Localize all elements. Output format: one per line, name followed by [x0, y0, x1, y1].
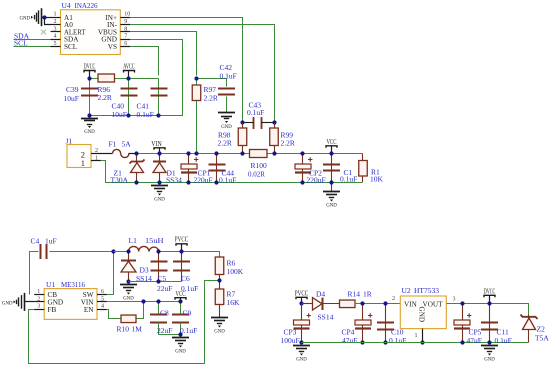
svg-text:4: 4 [101, 304, 104, 310]
capacitor C1 [331, 154, 333, 192]
capacitor C11 [489, 304, 491, 343]
junction C10 bottom [383, 340, 387, 344]
junction C9 ground [178, 332, 182, 336]
svg-text:2.2R: 2.2R [281, 139, 295, 148]
wire R14 to U2 VIN [355, 303, 401, 305]
svg-text:AVCC: AVCC [123, 63, 135, 71]
svg-text:VCC: VCC [327, 138, 337, 146]
svg-text:GND: GND [154, 197, 165, 203]
junction DVCC node [87, 76, 91, 80]
svg-text:2: 2 [392, 296, 395, 302]
capacitor C6 [181, 252, 183, 282]
op-amp U4 INA226 current monitor [61, 10, 121, 55]
svg-text:0.1uF: 0.1uF [340, 175, 357, 184]
pin 5 SCL [51, 46, 61, 48]
wire SDA [14, 39, 51, 41]
pin 1 [91, 160, 101, 162]
junction CP4 bottom [360, 340, 364, 344]
svg-text:SS34: SS34 [166, 176, 182, 185]
wire PVCC rail to R6 [159, 252, 220, 257]
resistor R100 shunt [250, 150, 268, 158]
pin 3 ALERT [51, 31, 61, 33]
svg-text:J1: J1 [66, 137, 73, 146]
svg-text:0.1uF: 0.1uF [247, 108, 264, 117]
junction R99 bottom [272, 151, 276, 155]
wire GND pin7 to ground rail [93, 40, 183, 116]
svg-text:2: 2 [37, 296, 40, 302]
svg-text:9: 9 [124, 19, 127, 25]
pin 8 VBUS [120, 31, 130, 33]
capacitor C39 [81, 88, 98, 90]
junction FB divider [217, 278, 221, 282]
svg-text:GND: GND [326, 203, 337, 209]
svg-text:220uF: 220uF [194, 176, 213, 185]
svg-text:GND: GND [296, 357, 307, 363]
ground below C11 [481, 345, 498, 347]
no-connect X on pin 3 [41, 30, 46, 35]
svg-text:220uF: 220uF [307, 176, 326, 185]
svg-text:SS14: SS14 [318, 313, 334, 322]
wire VBUS pin8 down [131, 32, 197, 76]
junction ground rail [126, 113, 130, 117]
capacitor CP2 polarized [302, 154, 304, 183]
svg-text:EN: EN [84, 306, 94, 314]
inductor L1 [129, 246, 160, 251]
wire to L1 [114, 251, 129, 253]
svg-text:10uF: 10uF [112, 110, 127, 119]
junction C5 bottom [156, 279, 160, 283]
svg-text:U2: U2 [402, 286, 411, 295]
svg-text:C9: C9 [183, 309, 192, 318]
junction CP1 top [186, 151, 190, 155]
capacitor C5 [158, 252, 160, 282]
svg-text:T5A: T5A [535, 334, 549, 343]
pin 1 CB [34, 294, 44, 296]
svg-text:3: 3 [37, 304, 40, 310]
svg-text:DVCC: DVCC [84, 63, 96, 71]
wire IN- pin9 to R99 [131, 25, 275, 121]
svg-text:L1: L1 [129, 236, 138, 245]
junction D3 bottom ground [126, 279, 130, 283]
svg-text:T30A: T30A [111, 176, 129, 185]
svg-text:1: 1 [37, 289, 40, 295]
svg-text:U1: U1 [46, 280, 55, 289]
svg-text:SCL: SCL [64, 43, 77, 51]
svg-text:3: 3 [453, 297, 456, 303]
pin 1 A1 [51, 17, 61, 19]
pin 9 IN- [120, 24, 130, 26]
pin 6 VS [120, 46, 130, 48]
svg-text:7: 7 [124, 34, 127, 40]
svg-text:GND: GND [175, 349, 186, 355]
svg-text:R10: R10 [117, 325, 130, 334]
svg-text:DVCC: DVCC [484, 287, 496, 295]
svg-text:Z2: Z2 [537, 325, 546, 334]
junction C1 top [329, 151, 333, 155]
capacitor CP3 polarized [301, 304, 303, 343]
svg-text:47uF: 47uF [467, 336, 482, 345]
resistor R96 [98, 74, 115, 82]
pin 3 FB [34, 309, 44, 311]
svg-text:VIN: VIN [404, 301, 418, 309]
connector J1 [67, 145, 91, 168]
junction C8 top [156, 299, 160, 303]
svg-text:1M: 1M [132, 325, 143, 334]
wire C40 column [128, 79, 130, 116]
svg-text:1R: 1R [363, 290, 372, 299]
svg-text:R14: R14 [348, 290, 361, 299]
wire C9 bottom [180, 323, 182, 338]
svg-text:0.1uF: 0.1uF [219, 176, 236, 185]
diode D3 freewheel [128, 252, 130, 282]
wire C42 to ground [226, 97, 228, 113]
junction C10 top [383, 301, 387, 305]
pin 4 EN [97, 309, 107, 311]
capacitor C43 [253, 117, 255, 129]
pin 2 [91, 153, 101, 155]
wire output ground line [302, 342, 529, 344]
svg-text:GND: GND [214, 329, 225, 335]
junction R98 bottom [240, 151, 244, 155]
svg-text:2: 2 [54, 19, 57, 25]
junction C43 right [272, 120, 276, 124]
wire AVCC rail [90, 78, 159, 80]
svg-text:HT7533: HT7533 [414, 286, 439, 295]
svg-text:8: 8 [124, 26, 127, 32]
capacitor C41 [151, 88, 168, 90]
svg-text:ME3116: ME3116 [61, 280, 85, 289]
capacitor CP5 polarized [462, 304, 464, 343]
junction CP2 bottom [300, 180, 304, 184]
pin 6 SW [97, 294, 107, 296]
capacitor CP4 polarized [362, 304, 364, 343]
svg-text:PVCC: PVCC [295, 289, 309, 297]
diode D4 [302, 303, 313, 305]
svg-text:3: 3 [54, 26, 57, 32]
svg-text:1: 1 [81, 158, 85, 168]
junction U2 ground [420, 340, 424, 344]
capacitor CP1 polarized [188, 154, 190, 183]
capacitor C40 [121, 88, 138, 90]
svg-text:10uF: 10uF [64, 94, 79, 103]
svg-text:22uF: 22uF [157, 284, 172, 293]
ground below C1 [323, 191, 340, 193]
wire main VIN rail [137, 153, 363, 155]
svg-text:0.1uF: 0.1uF [137, 110, 154, 119]
junction C44 bottom [214, 180, 218, 184]
junction D1 bottom [157, 180, 161, 184]
junction C11 ground [487, 340, 491, 344]
svg-text:C6: C6 [181, 274, 190, 283]
resistor R98 [242, 123, 244, 154]
junction C1 bottom [329, 180, 333, 184]
junction C44 top [214, 151, 218, 155]
zener diode Z2 [528, 315, 530, 343]
resistor R6 [215, 257, 224, 275]
ground below D3 [120, 284, 137, 286]
svg-text:6: 6 [124, 41, 127, 47]
wire SW pin to node [107, 252, 114, 295]
svg-text:2.2R: 2.2R [204, 94, 218, 103]
svg-text:VIN: VIN [151, 140, 162, 148]
wire SCL [14, 46, 51, 48]
wire C4 left to CB pin [30, 252, 39, 295]
wire IN+ pin10 to R98 [131, 18, 243, 121]
junction ground rail [87, 113, 91, 117]
svg-text:22uF: 22uF [157, 326, 172, 335]
resistor R7 [215, 289, 224, 305]
svg-text:INA226: INA226 [75, 1, 98, 10]
svg-text:GND: GND [484, 357, 495, 363]
svg-text:0.02R: 0.02R [248, 170, 265, 179]
svg-text:1: 1 [95, 155, 98, 161]
svg-text:0.1uF: 0.1uF [389, 336, 406, 345]
junction VBUS-C42 [194, 76, 198, 80]
svg-text:C39: C39 [66, 85, 79, 94]
svg-text:100K: 100K [227, 267, 244, 276]
junction R10-VIN [141, 299, 145, 303]
svg-text:D4: D4 [316, 290, 325, 299]
ground below C39 [81, 118, 98, 120]
junction CP3 bottom [299, 340, 303, 344]
svg-text:PVCC: PVCC [175, 236, 189, 244]
resistor R1 [362, 154, 364, 183]
svg-text:GND: GND [2, 300, 13, 306]
wire pin2 jog to ground [45, 18, 51, 25]
svg-text:F1: F1 [109, 140, 117, 149]
wire FB feedback route [29, 281, 220, 364]
svg-text:2.2R: 2.2R [218, 139, 232, 148]
chip U1 ME3116 [44, 289, 97, 320]
svg-text:FB: FB [48, 306, 57, 314]
wire R97 to VCC rail [196, 79, 198, 154]
junction Z1 bottom [134, 180, 138, 184]
wire C41 column [158, 79, 160, 116]
svg-text:100uF: 100uF [281, 336, 300, 345]
svg-text:C8: C8 [160, 309, 169, 318]
svg-text:GND: GND [418, 307, 426, 323]
fuse F1 [101, 153, 113, 155]
TVS diode Z1 [136, 154, 138, 183]
svg-text:1: 1 [54, 12, 57, 18]
wire ground return line [101, 161, 363, 183]
wire output cap ground line [129, 281, 182, 283]
pin 4 SDA [51, 39, 61, 41]
ground below CP3 [293, 345, 310, 347]
svg-text:10: 10 [124, 12, 130, 18]
wire C8 bottom [159, 323, 181, 335]
svg-text:0.1uF: 0.1uF [495, 336, 512, 345]
svg-text:0.1uF: 0.1uF [180, 326, 197, 335]
resistor R97 [192, 85, 201, 101]
junction SW node [111, 249, 115, 253]
junction R97 bottom [194, 151, 198, 155]
pin 7 GND [120, 39, 130, 41]
svg-text:16K: 16K [227, 298, 241, 307]
diode D1 [159, 154, 161, 183]
svg-text:1: 1 [415, 333, 418, 339]
pin 2 GND [34, 301, 44, 303]
svg-text:4: 4 [54, 34, 57, 40]
junction pins 1-2 ground [42, 15, 46, 19]
wire ground rail C39-C41 [90, 115, 159, 117]
svg-text:VS: VS [108, 43, 117, 51]
wire EN through R10 to VIN [107, 302, 144, 319]
junction C5 top [156, 249, 160, 253]
capacitor C10 [385, 304, 387, 343]
junction C43 left [240, 120, 244, 124]
pin 2 A0 [51, 24, 61, 26]
capacitor C42 [218, 88, 235, 90]
svg-text:1uF: 1uF [45, 237, 57, 246]
junction PVCC node [299, 301, 303, 305]
svg-text:47uF: 47uF [342, 336, 357, 345]
junction AVCC node [126, 76, 130, 80]
wire C4 right to SW node [50, 251, 114, 253]
junction CP1 bottom [186, 180, 190, 184]
resistor R14 [340, 300, 356, 308]
svg-text:10K: 10K [370, 175, 384, 184]
svg-text:0.1uF: 0.1uF [220, 72, 237, 81]
junction CP4 top [360, 301, 364, 305]
wire C8 top [158, 302, 160, 315]
svg-text:5A: 5A [122, 140, 132, 149]
junction CP5 bottom [460, 340, 464, 344]
svg-text:GND: GND [221, 124, 232, 130]
svg-text:2: 2 [95, 148, 98, 154]
wire to C42 [197, 79, 227, 87]
svg-text:GND: GND [123, 296, 134, 302]
junction CP5 top [460, 301, 464, 305]
junction D1 top [157, 151, 161, 155]
pin 5 VIN [97, 301, 107, 303]
ground below R7 [211, 317, 228, 319]
svg-text:15uH: 15uH [145, 236, 164, 245]
resistor R99 [274, 123, 276, 154]
wire C9 top [180, 302, 182, 315]
svg-text:GND: GND [20, 16, 31, 22]
junction CP2 top [300, 151, 304, 155]
pin 10 IN+ [120, 17, 130, 19]
wire VIN pin to VCC [107, 301, 181, 303]
ground below D1 [151, 185, 168, 187]
ground below C42 [218, 112, 235, 114]
junction PVCC node [179, 249, 183, 253]
wire VS pin6 to AVCC rail [131, 47, 159, 76]
wire C39 column [89, 79, 91, 119]
svg-text:GND: GND [84, 129, 95, 135]
svg-text:5: 5 [101, 296, 104, 302]
junction D3 top [126, 249, 130, 253]
svg-text:U4: U4 [62, 1, 71, 10]
junction C9 top [178, 299, 182, 303]
svg-text:6: 6 [101, 289, 104, 295]
svg-text:5: 5 [54, 41, 57, 47]
ground below C9 [172, 337, 189, 339]
wire VOUT rail [447, 304, 529, 315]
junction Z1 top [134, 151, 138, 155]
capacitor C44 [216, 154, 218, 183]
junction ground rail [156, 113, 160, 117]
svg-text:C4: C4 [31, 237, 40, 246]
junction C11 top [487, 301, 491, 305]
chip U2 HT7533 [400, 296, 446, 329]
svg-text:2.2R: 2.2R [98, 93, 112, 102]
